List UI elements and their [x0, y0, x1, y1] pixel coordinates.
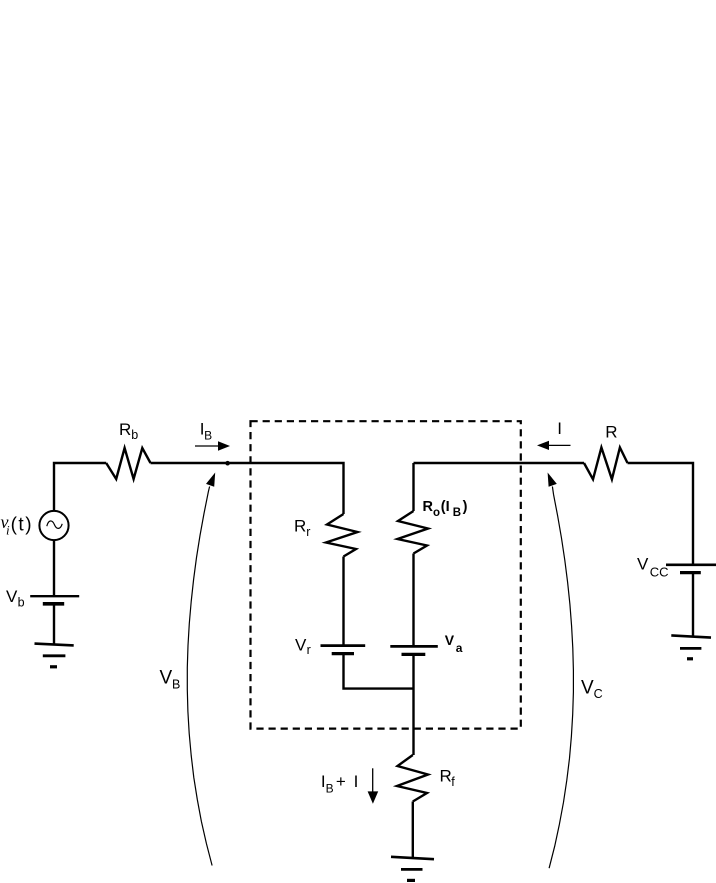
wire: V_r to bottom node [344, 654, 414, 689]
ground below V_CC [671, 635, 711, 637]
wire: source top to R_b [54, 463, 106, 511]
resistor R [584, 448, 628, 480]
wire: R to battery V_CC [628, 463, 694, 565]
svg-text:VB: VB [160, 668, 181, 692]
wire: top node to resistor R [414, 462, 585, 464]
wire: source to battery V_b [53, 540, 55, 596]
svg-text:Rf: Rf [440, 766, 456, 789]
svg-text:IB+I: IB+I [321, 772, 358, 796]
svg-text:I: I [557, 419, 562, 438]
svg-text:Va: Va [445, 632, 463, 655]
wire: R_o to battery V_a [412, 554, 414, 647]
voltage source v_i(t) [39, 511, 68, 540]
svg-text:Ro(IB): Ro(IB) [423, 499, 468, 519]
battery V_b [30, 595, 79, 597]
battery V_r [321, 644, 366, 647]
svg-text:IB: IB [200, 419, 212, 442]
svg-text:Rb: Rb [119, 420, 138, 442]
wire: V_CC to ground [692, 573, 694, 636]
wire: top node down to R_o [412, 463, 414, 511]
current arrow I_B + I (down) [372, 768, 374, 792]
wire: R_f to ground [412, 802, 414, 858]
svg-text:R: R [605, 423, 617, 442]
current arrow I_B [195, 445, 219, 447]
battery V_a [390, 645, 438, 648]
dashed box (transistor model boundary) [251, 421, 521, 728]
svg-text:Rr: Rr [294, 516, 310, 539]
current arrow I [548, 444, 571, 446]
resistor R_f [397, 755, 428, 802]
resistor R_b [106, 448, 150, 479]
wire: V_a through node to R_f [412, 654, 414, 755]
node dot on base wire [225, 461, 230, 466]
battery V_CC [666, 563, 716, 566]
voltage arrow V_B [187, 487, 212, 866]
wire: R_r to battery V_r [342, 557, 344, 646]
wire: R_b to R_r branch corner [151, 463, 344, 514]
svg-text:VC: VC [581, 678, 603, 702]
svg-text:Vr: Vr [295, 635, 311, 657]
ground below R_f [391, 857, 434, 859]
svg-text:Vb: Vb [6, 587, 25, 609]
wire: V_b to ground [53, 604, 55, 644]
ground below V_b [35, 644, 74, 646]
svg-text:vi(t): vi(t) [1, 512, 34, 538]
resistor R_o(I_B) [398, 511, 429, 554]
voltage arrow V_C [549, 487, 573, 869]
resistor R_r [326, 514, 358, 557]
svg-text:VCC: VCC [637, 554, 669, 579]
